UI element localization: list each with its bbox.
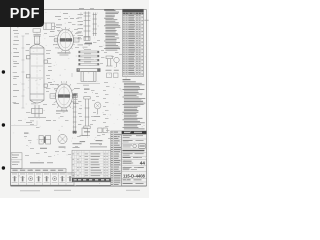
stub nozzle on top flange circle <box>55 38 58 42</box>
stub nozzles on bottom flange circle <box>50 94 56 98</box>
PDF badge <box>0 0 44 27</box>
hole punch dots left edge <box>2 70 5 73</box>
materials cell column <box>111 131 122 186</box>
scattered tiny annotations <box>13 55 19 58</box>
parts list table <box>123 9 144 76</box>
sheet border frame <box>11 10 147 186</box>
vessel elevation view <box>26 34 47 117</box>
small nozzle figures mid right <box>106 56 119 67</box>
small weld circle detail <box>94 102 101 109</box>
caption text below sheet <box>20 190 40 191</box>
notes text column 2 <box>123 79 131 80</box>
flange detail figures left bottom <box>24 133 29 134</box>
bottom detail strip header <box>11 169 66 173</box>
plate schedule stacked bars <box>84 42 92 45</box>
svg-text:115-D-4408: 115-D-4408 <box>123 173 146 178</box>
BOM table <box>72 150 111 182</box>
paper background <box>0 0 149 198</box>
small flanged pipe detail <box>84 97 90 129</box>
long stud bolt detail <box>73 94 77 135</box>
dark header band <box>122 131 147 134</box>
BOM dark header row <box>72 178 111 182</box>
notes text column 1 <box>104 9 114 10</box>
svg-text:44: 44 <box>140 161 146 166</box>
approval circle <box>133 144 137 148</box>
vessel centerline <box>36 32 38 119</box>
scan noise <box>72 107 74 110</box>
bottom flange hub <box>58 94 70 97</box>
title block <box>122 134 147 186</box>
top flange plan view circle <box>58 29 74 50</box>
FIG.2 flanged section detail <box>77 69 100 82</box>
bottom detail strip boxes <box>11 173 74 186</box>
top flange hub <box>60 38 72 41</box>
long dim line lower left <box>11 124 37 126</box>
tick mark right border <box>144 19 148 21</box>
extra tiny annotations around vessel <box>14 32 19 35</box>
nozzle pipe detail top middle <box>84 12 97 41</box>
dimension lines <box>22 36 24 108</box>
small detail figures above BOM <box>80 128 108 136</box>
small fitting details top <box>33 23 55 32</box>
svg-text:PDF: PDF <box>10 6 40 22</box>
bottom flange plan view circle <box>56 84 73 108</box>
small legend box bottom-left <box>11 153 22 169</box>
